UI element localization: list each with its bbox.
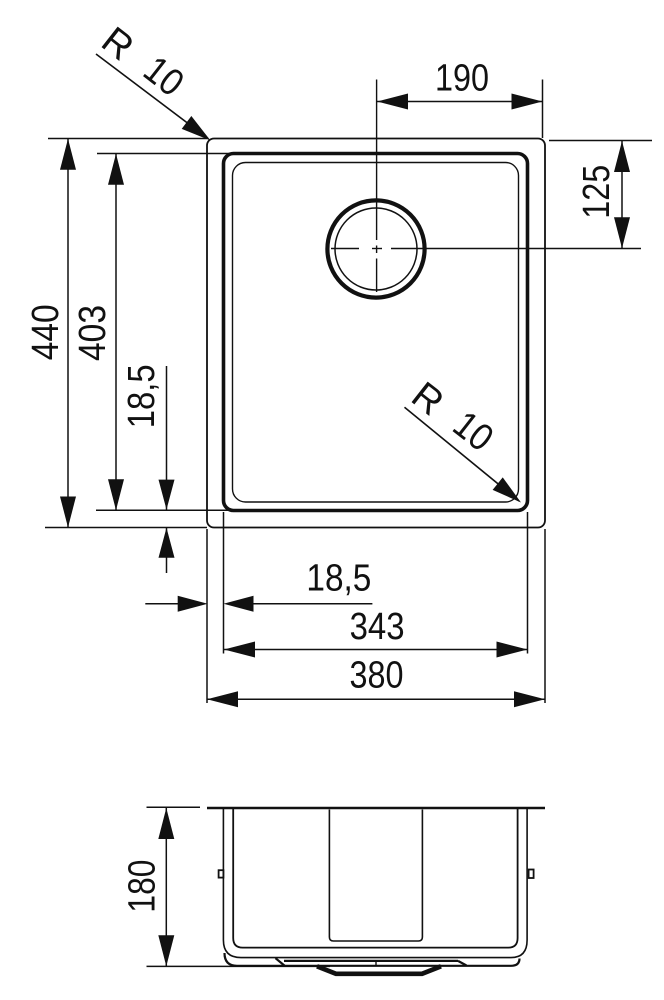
bowl rim (thick inner rectangle) [224, 154, 528, 511]
dimension 343 [224, 606, 528, 658]
vertical centerline [376, 80, 378, 293]
svg-text:380: 380 [350, 655, 404, 697]
svg-text:18,5: 18,5 [121, 364, 163, 428]
side view inner bowl profile [233, 808, 517, 948]
radius leader R10 top-left [94, 19, 216, 147]
bottom plate lowest edge [225, 953, 520, 966]
dimension 440 [25, 139, 207, 528]
radius leader R10 bottom-right [404, 374, 526, 508]
drain outer circle [327, 200, 424, 297]
svg-text:190: 190 [435, 58, 489, 100]
dimension 125 [549, 141, 652, 249]
svg-text:403: 403 [72, 305, 114, 361]
bowl floor edge (thin inner rectangle) [233, 163, 519, 503]
drain flange plate edge [276, 958, 467, 966]
drain trap dish [317, 966, 441, 974]
dimension 190 [377, 58, 543, 139]
left mounting clip [219, 870, 224, 877]
svg-text:18,5: 18,5 [306, 558, 371, 600]
dimension 18,5 (left vertical) [121, 364, 175, 573]
sink outer rim (top view) [207, 139, 545, 528]
dimension 403 [72, 154, 240, 511]
svg-text:343: 343 [350, 606, 405, 648]
side view drain zone rectangle [329, 810, 422, 942]
svg-text:125: 125 [576, 165, 618, 219]
svg-text:440: 440 [25, 304, 67, 360]
side view rim line [207, 807, 545, 810]
dimension 180 [122, 807, 330, 966]
dimension 18,5 (bottom horizontal) [145, 558, 372, 612]
dimension 380 [207, 655, 545, 708]
horizontal centerline [331, 248, 641, 250]
extension lines below top view [207, 512, 545, 703]
svg-text:180: 180 [122, 860, 164, 913]
side view outer bowl profile [223, 808, 527, 958]
right mounting clip [529, 870, 534, 879]
drain inner circle [335, 208, 417, 290]
